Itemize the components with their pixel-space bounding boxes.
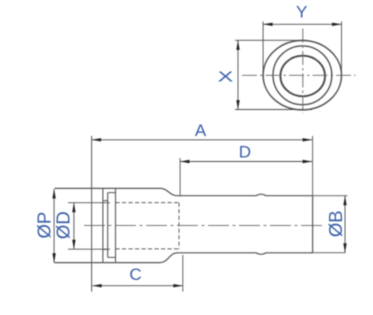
body top outline [55,187,162,189]
release button right edge [102,188,104,262]
OD top arrow [72,203,75,213]
svg-text:ØP: ØP [33,212,54,239]
OB bottom arrow [343,243,346,253]
hidden bore end face [178,203,180,249]
main centerline [84,224,324,226]
body-to-stem transition bottom [161,253,177,263]
stem end face [312,196,314,253]
C left arrow [92,284,102,287]
A left arrow [92,138,102,141]
X extension line top [235,39,307,41]
OP top arrow [52,189,55,199]
stem bottom outline with ridge bump [178,253,313,255]
body bottom outline [55,262,162,264]
body front face edge [115,188,117,262]
label X [218,69,234,86]
svg-text:Y: Y [296,3,307,22]
cap circle [273,46,332,105]
OP bottom arrow [52,253,55,263]
release button left edge + A/C extension line [91,136,93,292]
dimension OB line [344,196,346,253]
OB top arrow [343,196,346,206]
cap lip bottom line [108,256,116,258]
D right arrow [303,160,313,163]
OB extension line top [313,195,348,197]
vertical centerline of end view [302,29,304,114]
dimension A line [92,139,313,141]
svg-text:A: A [195,121,207,140]
OD bottom arrow [72,240,75,250]
hidden bore bottom line [116,248,180,250]
dimension Y line [263,23,341,25]
body-to-stem transition top [161,188,177,195]
oval release button outline [263,40,341,109]
dimension C line [92,285,183,287]
svg-text:X: X [218,69,234,86]
dimension OP line [53,189,55,263]
OB extension line bottom [311,252,346,254]
svg-text:ØD: ØD [53,211,74,239]
dimension D line [180,161,312,163]
X bottom arrow [236,100,239,110]
Y extension line left [262,22,264,74]
Y left arrow [263,23,273,26]
A right arrow [303,138,313,141]
D extension line [179,158,181,196]
cap lip top line [108,192,116,194]
X top arrow [236,40,239,50]
stem end extension line [312,136,314,196]
svg-text:ØB: ØB [325,210,346,237]
bore circle [280,56,325,97]
D left arrow [180,160,190,163]
dimension X line [237,40,239,109]
cap lip left edge [107,193,109,258]
hidden bore top line [116,202,180,204]
svg-text:D: D [239,143,251,162]
Y right arrow [332,23,342,26]
stem top outline with ridge bump [178,194,313,196]
OD extension line bottom [68,248,110,250]
C right extension line [182,255,184,292]
button neck top line [103,200,108,202]
button neck bottom line [103,248,108,250]
horizontal centerline of end view [242,74,356,76]
svg-text:C: C [129,265,141,284]
Y extension line right [341,22,343,74]
dimension OD line [73,203,75,250]
OD extension line top [68,202,110,204]
C right arrow [173,284,183,287]
X extension line bottom [235,109,312,111]
